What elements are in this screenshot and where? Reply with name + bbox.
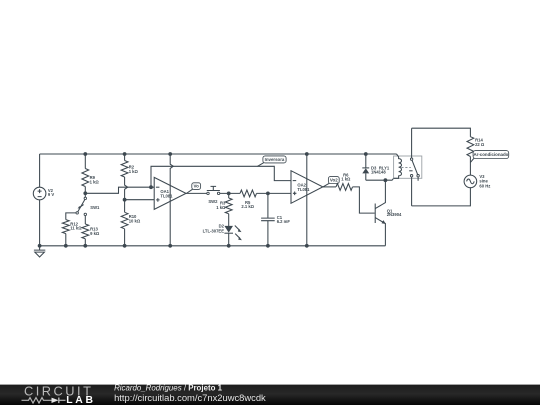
- junction dots bottom rail: [38, 244, 42, 248]
- node Q1 collector: [384, 178, 388, 182]
- flag Inversora: [257, 156, 286, 167]
- resistor R12: [62, 220, 82, 246]
- wire to OA1 non-inverting input: [125, 199, 155, 201]
- svg-text:Ar-condicionado: Ar-condicionado: [473, 152, 508, 157]
- svg-text:TL081: TL081: [160, 194, 173, 199]
- wire load loop bottom: [412, 188, 471, 206]
- svg-text:6.2 mF: 6.2 mF: [277, 219, 291, 224]
- svg-text:9 V: 9 V: [48, 192, 54, 197]
- wire load loop top: [412, 128, 471, 137]
- resistor R5: [240, 190, 257, 209]
- op-amp OA2: [291, 171, 323, 204]
- wire bottom rail: [40, 245, 386, 247]
- svg-text:Vo: Vo: [194, 184, 200, 189]
- wire SW1 right throw to R13: [84, 216, 86, 224]
- capacitor C1: [261, 193, 290, 245]
- node R9/SW1: [83, 191, 87, 195]
- wire R2 to R10 with hop chevron: [125, 177, 128, 212]
- wire R5 to OA2: [257, 192, 292, 194]
- resistor R6: [336, 173, 353, 191]
- svg-text:60 Hz: 60 Hz: [479, 183, 490, 188]
- wire top rail: [40, 153, 397, 155]
- voltage source V3: [464, 174, 490, 188]
- wire R6 to Q1 base: [353, 187, 375, 213]
- resistor R14: [467, 137, 485, 157]
- footer bar: [0, 385, 540, 405]
- wire to OA1 inverting input: [85, 187, 154, 193]
- LED D2: [203, 223, 242, 245]
- svg-text:Vo2: Vo2: [330, 178, 338, 183]
- transistor Q1: [375, 180, 402, 246]
- wire R14 to V3: [469, 157, 471, 176]
- wire OA1 inv node to OA2 inv input: [151, 166, 291, 187]
- svg-text:LTL-307EE: LTL-307EE: [203, 229, 225, 234]
- svg-text:2N3904: 2N3904: [387, 212, 402, 217]
- diode D3: [362, 154, 386, 180]
- wire OA2 output: [323, 186, 336, 188]
- switch SW2 pushbutton: [207, 186, 220, 203]
- resistor R13: [82, 224, 100, 246]
- svg-text:22 Ω: 22 Ω: [475, 142, 485, 147]
- svg-text:10 kΩ: 10 kΩ: [129, 219, 141, 224]
- node R2/R10: [123, 198, 127, 202]
- resistor R2: [121, 154, 138, 177]
- wire SW2 to R5: [220, 192, 240, 194]
- voltage source V2: [33, 154, 54, 246]
- svg-text:SW1: SW1: [90, 205, 100, 210]
- resistor R10: [121, 212, 141, 246]
- svg-text:11 kΩ: 11 kΩ: [70, 226, 82, 231]
- svg-text:TL081: TL081: [297, 187, 310, 192]
- svg-text:1N4148: 1N4148: [371, 170, 386, 175]
- wire SW1 left throw to R12: [66, 213, 76, 220]
- svg-text:http://circuitlab.com/c7nx2uwc: http://circuitlab.com/c7nx2uwc8wcdk: [114, 392, 266, 403]
- svg-text:2.1 kΩ: 2.1 kΩ: [241, 204, 254, 209]
- node feedback tap: [149, 185, 153, 189]
- switch SW1: [76, 197, 100, 215]
- wire OA2 power rail vertical: [306, 154, 308, 246]
- ground: [34, 246, 45, 257]
- svg-text:SW2: SW2: [208, 199, 218, 204]
- svg-text:1 kΩ: 1 kΩ: [129, 169, 139, 174]
- svg-text:1 kΩ: 1 kΩ: [216, 205, 226, 210]
- wire OA1 power rail vertical with hop: [170, 154, 173, 246]
- junction dots top rail: [83, 152, 87, 156]
- svg-text:LAB: LAB: [66, 395, 95, 405]
- resistor R9: [82, 154, 100, 197]
- wire OA1 output: [186, 192, 207, 194]
- flag Vo: [186, 183, 200, 194]
- op-amp OA1: [154, 177, 186, 209]
- resistor R3: [216, 193, 232, 226]
- svg-text:1 kΩ: 1 kΩ: [90, 180, 100, 185]
- svg-text:9 kΩ: 9 kΩ: [90, 231, 100, 236]
- node R3 tap: [227, 192, 231, 196]
- svg-text:RLY1: RLY1: [379, 165, 390, 170]
- flag Vo2: [323, 177, 339, 187]
- relay RLY1: [379, 128, 422, 206]
- wire D3 to relay coil bottom: [366, 178, 394, 180]
- svg-text:1 kΩ: 1 kΩ: [341, 177, 351, 182]
- logo resistor-diode squiggle: [22, 398, 66, 404]
- svg-text:Inversora: Inversora: [265, 157, 285, 162]
- node C1 tap: [266, 192, 270, 196]
- flag Ar-condicionado: [470, 151, 508, 163]
